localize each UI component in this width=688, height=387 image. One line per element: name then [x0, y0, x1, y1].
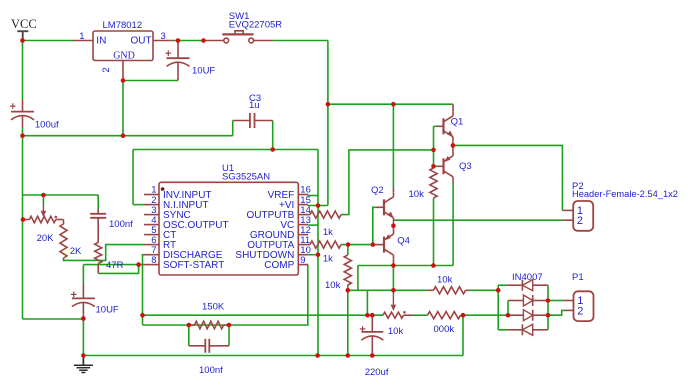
svg-text:3: 3	[161, 31, 166, 42]
svg-text:10k: 10k	[437, 275, 453, 286]
svg-text:1: 1	[79, 31, 84, 42]
svg-text:SOFT-START: SOFT-START	[163, 260, 224, 271]
svg-text:1u: 1u	[249, 100, 260, 111]
svg-text:1k: 1k	[323, 254, 333, 265]
svg-text:100nf: 100nf	[109, 219, 133, 230]
svg-text:10k: 10k	[325, 280, 341, 291]
svg-text:Header-Female-2.54_1x2: Header-Female-2.54_1x2	[572, 189, 678, 199]
svg-text:2: 2	[101, 67, 112, 72]
svg-text:GND: GND	[113, 50, 135, 61]
svg-text:10k: 10k	[409, 189, 425, 200]
svg-text:Q2: Q2	[371, 185, 384, 196]
svg-text:Q1: Q1	[451, 117, 464, 128]
svg-text:Q4: Q4	[397, 236, 410, 247]
svg-text:LM78012: LM78012	[103, 20, 143, 31]
svg-text:10k: 10k	[388, 326, 404, 337]
svg-text:IN: IN	[96, 35, 106, 46]
svg-text:10UF: 10UF	[96, 305, 119, 316]
svg-text:150K: 150K	[202, 302, 225, 313]
svg-text:OUT: OUT	[131, 35, 152, 46]
svg-text:20K: 20K	[37, 233, 55, 244]
svg-text:IN4007: IN4007	[512, 272, 543, 283]
svg-text:SG3525AN: SG3525AN	[222, 172, 270, 183]
svg-text:EVQ22705R: EVQ22705R	[229, 19, 282, 30]
svg-text:8: 8	[151, 255, 156, 266]
svg-text:COMP: COMP	[264, 260, 294, 271]
svg-text:VCC: VCC	[11, 17, 37, 31]
svg-text:2: 2	[577, 305, 583, 317]
svg-text:1k: 1k	[323, 227, 333, 238]
svg-text:9: 9	[300, 255, 305, 266]
svg-text:47R: 47R	[106, 260, 124, 271]
svg-text:Q3: Q3	[459, 161, 472, 172]
svg-text:2: 2	[577, 215, 583, 227]
svg-text:P1: P1	[572, 272, 584, 283]
svg-text:100nf: 100nf	[199, 365, 223, 376]
svg-text:220uf: 220uf	[365, 367, 389, 378]
svg-text:000k: 000k	[434, 324, 455, 335]
svg-text:10UF: 10UF	[192, 66, 215, 77]
svg-text:2K: 2K	[70, 246, 82, 257]
svg-text:100uf: 100uf	[35, 119, 59, 130]
